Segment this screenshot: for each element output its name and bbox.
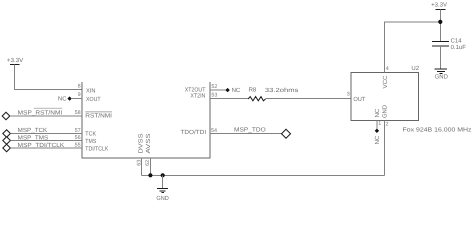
connector MSP_TMS bbox=[3, 137, 11, 145]
svg-text:53: 53 bbox=[211, 92, 217, 98]
wire pin 62 stub bbox=[149, 158, 151, 175]
wire C14 to GND bbox=[439, 46, 441, 69]
svg-text:XT2IN: XT2IN bbox=[190, 93, 205, 100]
svg-text:MSP_RST/NMI: MSP_RST/NMI bbox=[18, 110, 63, 117]
svg-text:52: 52 bbox=[211, 84, 217, 90]
wire +3.3V stem bbox=[439, 10, 441, 42]
svg-text:NC: NC bbox=[374, 108, 381, 117]
connector MSP_TDO bbox=[282, 129, 291, 138]
svg-text:+3.3V: +3.3V bbox=[7, 57, 24, 64]
ground GND (bottom) bbox=[156, 175, 169, 202]
svg-text:RST/NMI: RST/NMI bbox=[85, 112, 112, 119]
svg-text:4: 4 bbox=[386, 66, 389, 72]
svg-text:AVSS: AVSS bbox=[145, 134, 152, 154]
svg-text:NC: NC bbox=[374, 135, 381, 144]
svg-text:VCC: VCC bbox=[382, 75, 389, 89]
svg-text:55: 55 bbox=[75, 143, 81, 149]
svg-text:TCK: TCK bbox=[85, 131, 96, 138]
no-connect NC on XT2OUT bbox=[225, 87, 241, 94]
wire pin 63 stub bbox=[141, 158, 143, 175]
svg-text:TMS: TMS bbox=[85, 138, 96, 145]
connector MSP_TDI/TCLK bbox=[3, 144, 11, 152]
svg-text:2: 2 bbox=[386, 121, 389, 127]
svg-text:GND: GND bbox=[156, 195, 169, 202]
svg-text:TDO/TDI: TDO/TDI bbox=[181, 129, 207, 136]
junction dot bbox=[148, 173, 152, 177]
wire TDI/TCLK bbox=[11, 147, 82, 149]
wire pin 54 to connector bbox=[210, 133, 281, 135]
svg-text:OUT: OUT bbox=[353, 96, 365, 103]
svg-text:GND: GND bbox=[381, 104, 388, 118]
svg-text:54: 54 bbox=[211, 128, 217, 134]
svg-text:57: 57 bbox=[75, 128, 81, 134]
svg-text:3: 3 bbox=[347, 92, 350, 98]
svg-text:XOUT: XOUT bbox=[86, 96, 101, 103]
svg-text:MSP_TMS: MSP_TMS bbox=[18, 134, 49, 141]
svg-text:56: 56 bbox=[75, 135, 81, 141]
svg-text:NC: NC bbox=[58, 96, 67, 103]
svg-text:R8: R8 bbox=[249, 87, 257, 94]
oscillator U2 body bbox=[351, 73, 419, 121]
wire NC to pin 9 bbox=[71, 98, 82, 100]
svg-text:Fox 924B 16.000 MHz: Fox 924B 16.000 MHz bbox=[403, 127, 472, 134]
svg-text:NC: NC bbox=[232, 87, 241, 94]
wire TCK bbox=[11, 133, 82, 135]
wire pin 52 to NC bbox=[210, 89, 226, 91]
wire VCC to +3.3V rail bbox=[385, 22, 441, 73]
connector MSP_RST/NMI bbox=[2, 112, 10, 120]
svg-text:XT2OUT: XT2OUT bbox=[185, 86, 206, 93]
svg-text:XIN: XIN bbox=[86, 88, 96, 95]
wire TMS bbox=[11, 140, 82, 142]
svg-text:MSP_TDO: MSP_TDO bbox=[234, 126, 266, 133]
svg-text:1: 1 bbox=[378, 121, 381, 127]
svg-text:8: 8 bbox=[78, 84, 81, 90]
capacitor C14 bbox=[432, 38, 466, 51]
wire pin 2 GND to ground bus bbox=[384, 120, 386, 175]
svg-text:DVSS: DVSS bbox=[138, 134, 145, 154]
svg-text:9: 9 bbox=[78, 92, 81, 98]
wire pin 1 stub bbox=[376, 120, 378, 129]
wire from +3.3V to pin 8 XIN bbox=[15, 65, 82, 90]
op IC U1 body (MSP430, top edge cropped) bbox=[82, 82, 210, 158]
svg-text:+3.3V: +3.3V bbox=[431, 2, 447, 9]
svg-text:U2: U2 bbox=[411, 65, 419, 72]
wire RST/NMI bbox=[10, 115, 82, 117]
no-connect NC below pin 1 bbox=[374, 129, 381, 145]
svg-text:MSP_TCK: MSP_TCK bbox=[18, 127, 47, 134]
wire resistor to U2 OUT bbox=[266, 98, 351, 100]
resistor R8 bbox=[248, 97, 265, 101]
svg-text:33.2ohms: 33.2ohms bbox=[265, 87, 299, 94]
svg-text:GND: GND bbox=[435, 73, 449, 80]
no-connect NC on XOUT pin 9 bbox=[58, 96, 72, 103]
svg-text:0.1uF: 0.1uF bbox=[451, 44, 467, 51]
junction dot bbox=[438, 20, 442, 24]
power +3.3V (left) bbox=[7, 57, 24, 65]
svg-text:58: 58 bbox=[75, 110, 81, 116]
power +3.3V (right) bbox=[431, 2, 447, 10]
svg-text:C14: C14 bbox=[451, 38, 463, 45]
wire pin 53 to resistor bbox=[210, 98, 248, 100]
ground GND (under C14) bbox=[435, 69, 449, 80]
wire ground bus bbox=[142, 174, 385, 176]
svg-text:TDI/TCLK: TDI/TCLK bbox=[85, 145, 108, 152]
connector MSP_TCK bbox=[3, 130, 11, 138]
svg-text:MSP_TDI/TCLK: MSP_TDI/TCLK bbox=[18, 142, 65, 149]
junction dot bbox=[161, 173, 165, 177]
